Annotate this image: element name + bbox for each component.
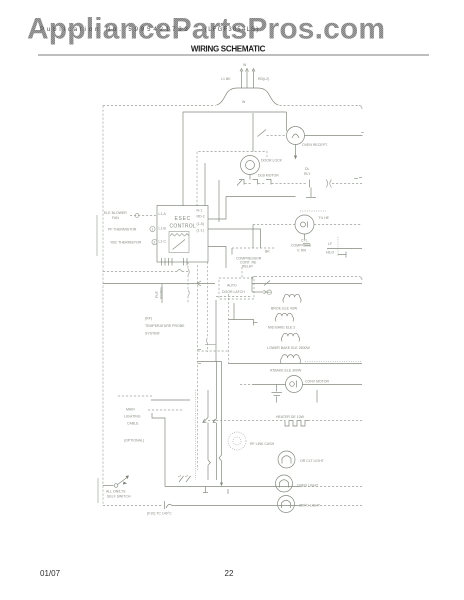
svg-text:(1-5): (1-5) — [197, 222, 204, 226]
arrow on door bus — [197, 281, 201, 286]
svg-text:YBC THERMISTOR: YBC THERMISTOR — [110, 241, 142, 245]
transistor leg x217 — [213, 362, 216, 481]
heating element lower bake coil — [281, 333, 299, 341]
wire connector vertical dotted x195 — [195, 390, 197, 480]
svg-text:PF THERMISTOR: PF THERMISTOR — [108, 228, 137, 232]
switch tick on door bus — [264, 281, 270, 286]
svg-text:BROIL ELE 40W: BROIL ELE 40W — [271, 307, 298, 311]
control board EOC box — [157, 206, 208, 263]
ground stub below bus — [203, 487, 208, 493]
wire lighting dashed mid — [148, 409, 183, 411]
svg-text:22: 22 — [225, 569, 234, 578]
wire EOC bottom drop (dashed) — [188, 262, 189, 303]
wire probe branch — [229, 303, 254, 326]
svg-text:N-1: N-1 — [197, 209, 203, 213]
wire mid vertical x228 (dashed) — [228, 294, 230, 364]
heating element upper bake coil — [275, 313, 293, 321]
svg-text:(OPTIONAL): (OPTIONAL) — [124, 439, 144, 443]
wire solid y361 — [198, 361, 222, 363]
faint dashes y211 — [300, 210, 326, 212]
wire neutral bus mid — [226, 196, 296, 198]
wire left edge bus (dashed vertical) — [102, 106, 104, 506]
svg-text:LIGHTING: LIGHTING — [124, 415, 141, 419]
EOC bottom pin ticks group1 — [162, 258, 173, 266]
svg-text:V. RN: V. RN — [297, 249, 306, 253]
end mark y135 — [361, 132, 364, 134]
wire x221 lower — [220, 461, 223, 486]
svg-text:CABLE: CABLE — [127, 422, 139, 426]
ground tick right — [227, 489, 229, 494]
svg-text:01/07: 01/07 — [40, 569, 61, 578]
svg-text:2: 2 — [153, 241, 155, 245]
wire lighting feed — [152, 413, 165, 487]
svg-text:Publication No. 5995421733: Publication No. 5995421733 — [40, 27, 191, 33]
title rule line — [38, 54, 429, 56]
wire lighting dashes top — [118, 395, 152, 397]
svg-text:PUT: PUT — [155, 290, 159, 298]
svg-text:DOOR LOCK: DOOR LOCK — [261, 159, 283, 163]
double dash mark — [303, 244, 310, 246]
svg-text:CONTROL: CONTROL — [170, 224, 197, 230]
wire fan to EOC (dashed) — [130, 214, 156, 218]
svg-text:WIRING SCHEMATIC: WIRING SCHEMATIC — [191, 45, 266, 54]
wire lamp to right bus — [305, 135, 363, 137]
svg-text:HILO: HILO — [326, 251, 334, 255]
capacitor conv — [272, 385, 283, 403]
left margin bar — [96, 215, 98, 256]
wire bottom edge (dashed) — [103, 505, 162, 507]
motor door lock — [241, 156, 260, 180]
probe connector hook — [254, 322, 258, 324]
power cord terminal L2 — [252, 69, 255, 89]
wire conv bus left — [252, 384, 286, 386]
wire box2 top (dashed) — [197, 152, 267, 207]
end marks y183 — [354, 178, 362, 179]
heating element warmer — [285, 421, 308, 427]
wire door bus right — [252, 283, 362, 285]
connector pair on door lock bus — [326, 180, 332, 188]
switch oven light — [258, 130, 287, 137]
wire neutral return (dashed) — [103, 271, 177, 273]
svg-text:LOWER BAKE ELE 2600W: LOWER BAKE ELE 2600W — [267, 346, 310, 350]
wire to EOC bottom (dashed) — [182, 271, 188, 273]
contact 1 door lock — [237, 180, 244, 186]
wire door bus left — [103, 283, 215, 285]
wire contact links (dashed) — [245, 183, 308, 185]
svg-text:L1 BK: L1 BK — [221, 77, 231, 81]
wire mid vertical x207 (dashed) — [206, 262, 207, 352]
power cord strain relief dome — [217, 88, 279, 105]
svg-text:L1-A: L1-A — [159, 212, 167, 216]
fuse thermal — [165, 501, 173, 509]
svg-text:TEMPERATURE PROBE: TEMPERATURE PROBE — [145, 324, 185, 328]
wire conv bus left dashed — [240, 384, 252, 386]
svg-text:LF: LF — [328, 242, 332, 246]
lamp backguard light — [278, 496, 295, 513]
wire cooling fan to right (dashed) — [314, 224, 362, 226]
svg-text:CTL: CTL — [301, 239, 308, 243]
svg-text:RLY: RLY — [304, 172, 311, 176]
wire stub into latch box (dashed) — [241, 267, 243, 278]
svg-text:DLB MOTOR: DLB MOTOR — [258, 174, 279, 178]
svg-text:HEATER DE 10W: HEATER DE 10W — [276, 415, 305, 419]
wire mid vertical x221 — [221, 362, 223, 456]
svg-text:OR CLT LIGHT: OR CLT LIGHT — [300, 459, 325, 463]
wire warmer bus right (dashed) — [308, 420, 362, 422]
heating element broil coil — [283, 294, 301, 302]
wire outer top bus left (dashed) — [103, 105, 216, 107]
svg-text:FAN: FAN — [112, 216, 119, 220]
hilo stub with terminator — [338, 252, 346, 258]
wire compressor bus (dashed) — [253, 224, 295, 226]
wire EOC pin out y246 — [208, 247, 226, 269]
wire bake bus y363 — [229, 363, 363, 365]
lamp oven light B — [278, 451, 295, 468]
lamp oven light C — [276, 475, 293, 492]
compressor circle stub — [304, 234, 306, 240]
svg-text:BK: BK — [265, 250, 270, 254]
wire drop x252 — [251, 277, 253, 293]
svg-text:AUTO: AUTO — [227, 284, 237, 288]
svg-text:CONV MOTOR: CONV MOTOR — [305, 380, 330, 384]
svg-text:RD(L2): RD(L2) — [258, 77, 269, 81]
arrow to receptacle — [294, 145, 297, 160]
wire conv bus right — [303, 384, 363, 386]
contact 3 door lock — [266, 180, 271, 185]
wire transistor drop diagonals — [178, 476, 191, 483]
wire bake bus parallel dashes — [305, 360, 361, 362]
wire EOC N-1 out — [208, 197, 226, 220]
wire drop to oven lamp — [286, 112, 288, 131]
wire hilo vertical (dotted) — [337, 237, 339, 256]
wire door lock bus to right (dashed) — [332, 183, 362, 185]
svg-text:TU HE: TU HE — [319, 216, 330, 220]
bracket ticks x197 — [198, 350, 201, 364]
wire lighting solid — [151, 399, 190, 401]
svg-text:RD-2: RD-2 — [197, 215, 205, 219]
svg-text:ESEC: ESEC — [175, 216, 191, 222]
wire compressor feed vertical — [252, 225, 254, 249]
relay K1 inside EOC — [169, 232, 189, 253]
wire bottom bus — [165, 486, 362, 488]
svg-text:OVEN RECEPT.: OVEN RECEPT. — [302, 143, 328, 147]
power cord terminal N — [246, 69, 249, 89]
wire L2 bus upper (dashed) — [252, 277, 362, 281]
heating element bake coil on bus — [281, 355, 301, 364]
top bus right end hook — [359, 106, 362, 110]
junction door lock bus — [306, 180, 316, 198]
crossover loop — [177, 270, 182, 272]
wire drop to light switch — [252, 113, 254, 152]
svg-text:SWING: SWING — [160, 287, 164, 299]
wire EOC pin out y229 — [208, 229, 261, 248]
wire box2 inner vertical — [204, 163, 206, 206]
svg-text:(LFGF3054LS): (LFGF3054LS) — [205, 27, 259, 33]
svg-text:DL: DL — [305, 167, 310, 171]
motor convection fan — [286, 376, 303, 393]
svg-text:MAIN: MAIN — [126, 408, 135, 412]
wire vertical x219 — [218, 180, 220, 222]
wire relay row (dashed) — [232, 247, 275, 249]
left margin bar bottom — [97, 478, 99, 503]
wire outer top bus right (dashed) — [280, 105, 360, 107]
power cord terminal L1 — [240, 69, 243, 89]
svg-text:1: 1 — [151, 228, 153, 232]
zigzag tick x221 — [219, 455, 222, 461]
wire arrow feed — [252, 290, 267, 293]
wire hilo bus — [327, 248, 362, 250]
wire dashed y351 — [198, 350, 229, 352]
switch light bottom — [103, 476, 129, 488]
svg-text:RF LINK CASH: RF LINK CASH — [250, 442, 275, 446]
svg-text:L1-C: L1-C — [159, 240, 167, 244]
wire mid vertical x216 — [215, 300, 217, 362]
lamp dotted RT — [228, 432, 246, 450]
tick y345 — [205, 344, 216, 346]
svg-text:(RF): (RF) — [145, 317, 152, 321]
svg-text:SELF SWITCH: SELF SWITCH — [107, 495, 131, 499]
connector circled plus — [267, 290, 271, 294]
wire bottom bus right — [172, 505, 362, 507]
auto latch box (dashed) — [219, 278, 254, 299]
wire warmer bus left (dashed) — [208, 420, 285, 422]
wire drop x162 — [161, 284, 163, 303]
svg-text:SYSTEM: SYSTEM — [145, 332, 159, 336]
svg-text:(1-1): (1-1) — [197, 229, 204, 233]
motor cooling fan — [295, 215, 314, 234]
wire inner box top — [183, 112, 287, 206]
EOC bottom pin ticks group2 — [184, 258, 188, 266]
svg-text:DOOR LATCH: DOOR LATCH — [222, 290, 245, 294]
connector circled 2 — [152, 239, 157, 244]
transistor leg x208 upper — [203, 390, 211, 480]
svg-text:MID BAKE ELE 2: MID BAKE ELE 2 — [268, 326, 295, 330]
svg-text:RELAY: RELAY — [242, 265, 254, 269]
connector circled 1 — [150, 226, 155, 231]
svg-text:(F10) TC 140°C: (F10) TC 140°C — [147, 512, 172, 516]
wire stub x317 — [316, 390, 318, 403]
lamp oven light — [287, 127, 305, 145]
wire dashed y296 — [216, 296, 252, 298]
contact 2 door lock — [253, 180, 258, 185]
svg-text:ELE BLOWER: ELE BLOWER — [104, 211, 127, 215]
svg-text:ALL ON/LTS: ALL ON/LTS — [106, 490, 126, 494]
wire mid verticals x197 (dashed) — [197, 265, 199, 470]
svg-text:OVEN LIGHT: OVEN LIGHT — [297, 484, 319, 488]
relay contact tick — [231, 248, 233, 255]
svg-text:L1-B: L1-B — [159, 227, 167, 231]
svg-text:ATBAKE ELE 300W: ATBAKE ELE 300W — [270, 369, 302, 373]
